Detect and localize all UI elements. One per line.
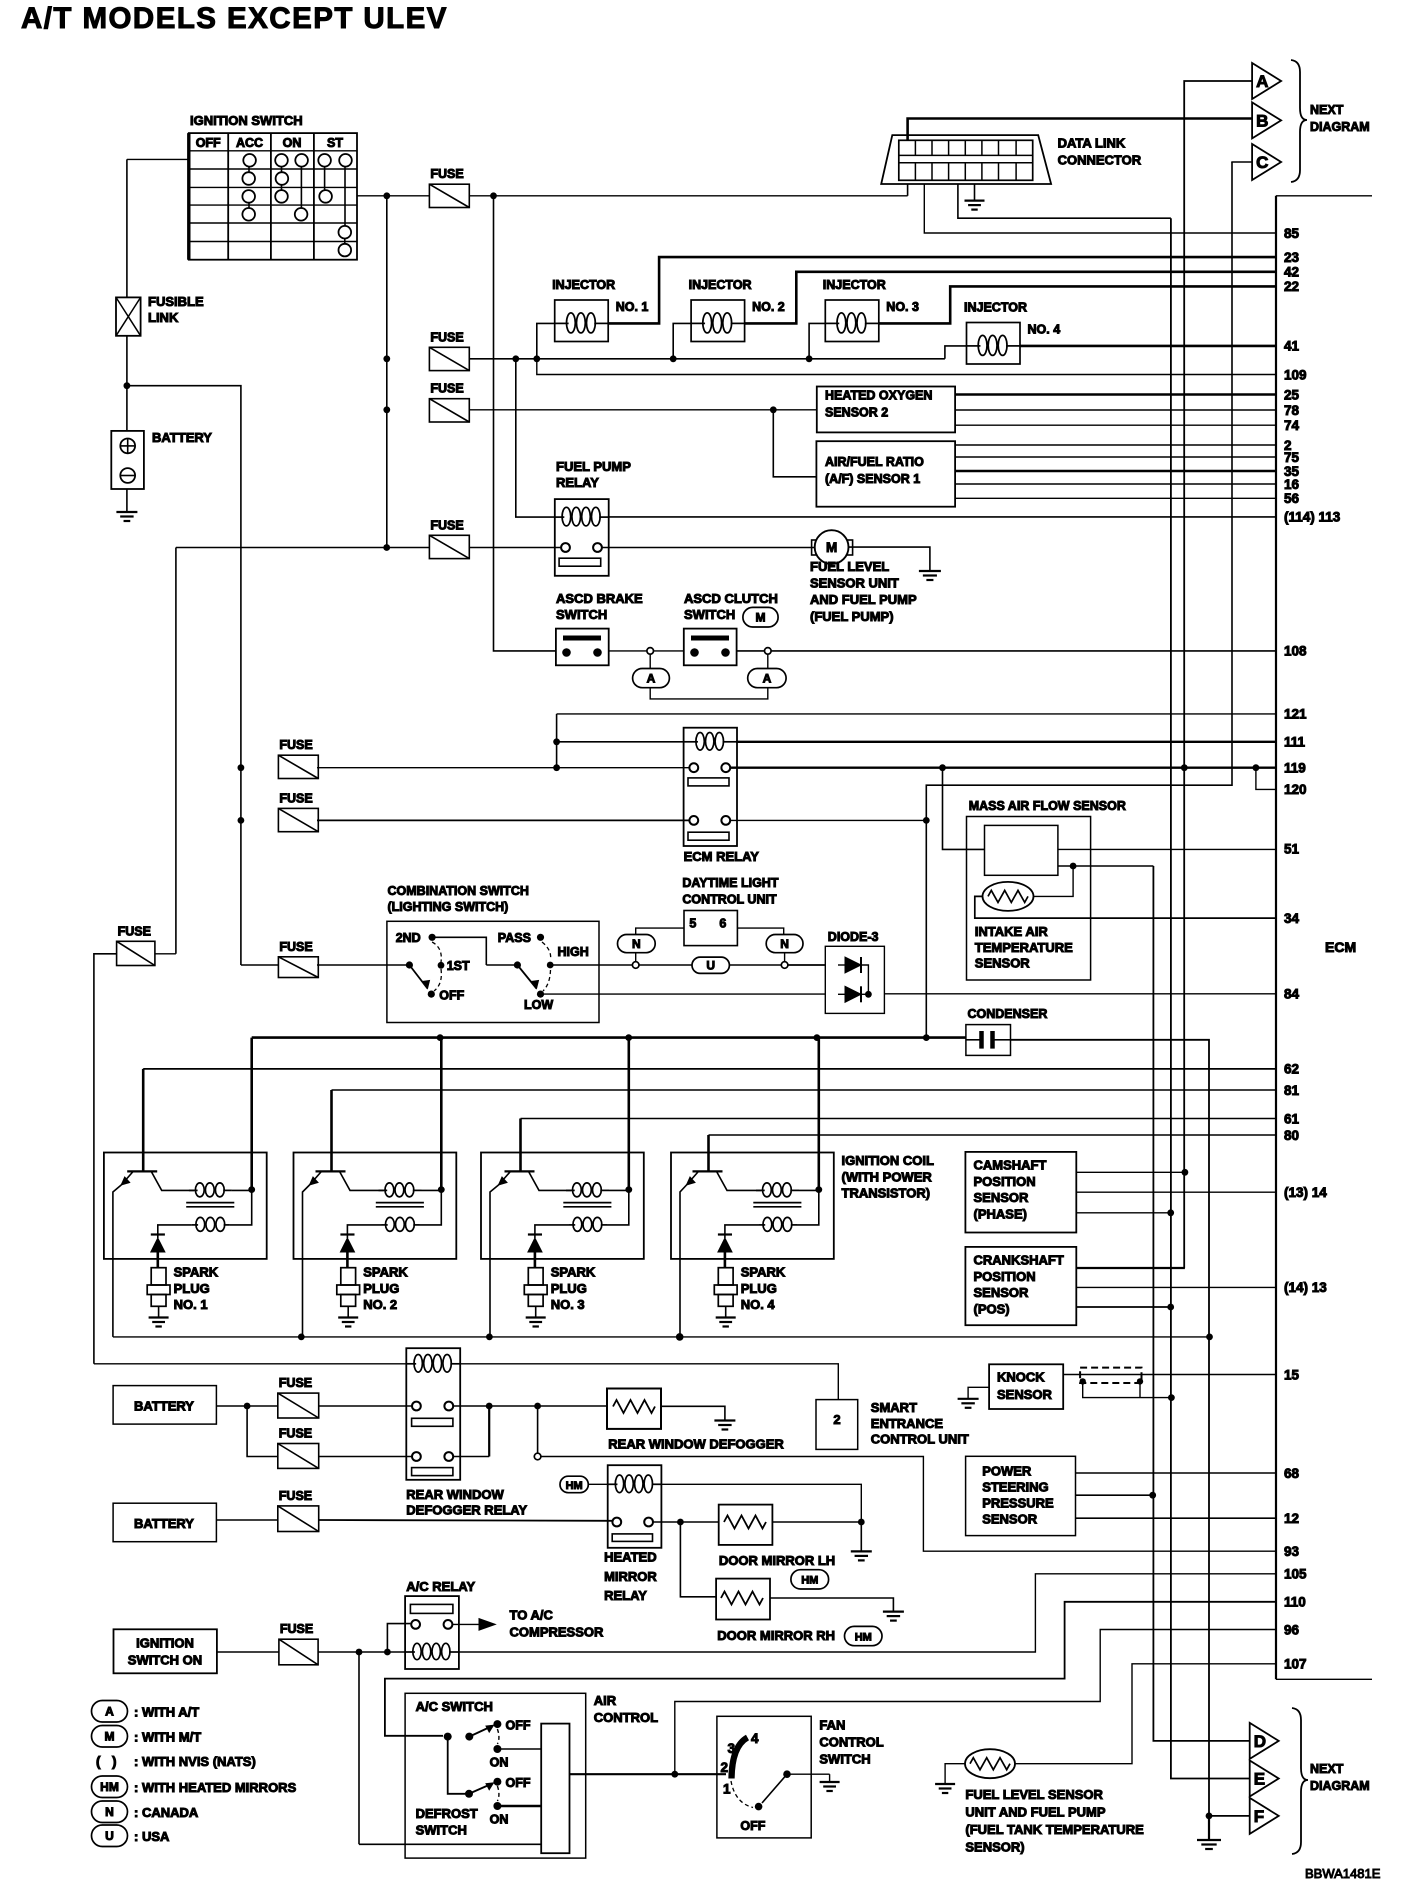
wire shield drain to E line: [1083, 1381, 1172, 1397]
diode coil NO. 3: [528, 1233, 542, 1235]
wire knock sensor ground: [968, 1387, 989, 1399]
wire B2 branch to FD2: [247, 1406, 278, 1457]
svg-text:NO. 1: NO. 1: [174, 1297, 208, 1312]
ignition switch table: [189, 133, 357, 260]
wire FD2 to defogger relay lower: [319, 1456, 412, 1458]
svg-text:85: 85: [1284, 226, 1300, 241]
data link connector DLC: [881, 135, 1051, 184]
wire HO2S pin 74: [955, 424, 1276, 426]
AC relay: [405, 1596, 459, 1669]
wire ECM relay lower contact out: [730, 819, 926, 821]
svg-text:34: 34: [1284, 911, 1300, 926]
svg-text:: WITH NVIS (NATS): : WITH NVIS (NATS): [134, 1754, 256, 1769]
injector NO. 1: [555, 300, 609, 342]
fuel tank temperature sensor: [965, 1749, 1015, 1778]
svg-text:(114) 113: (114) 113: [1284, 510, 1341, 525]
diode coil NO. 1: [151, 1233, 165, 1235]
svg-text:): ): [112, 1754, 117, 1769]
rear window defogger relay: [406, 1348, 460, 1480]
svg-text:E: E: [1254, 1770, 1265, 1789]
svg-text:SWITCH: SWITCH: [416, 1823, 467, 1838]
wire crankshaft pin2 to pin14-13: [1076, 1286, 1276, 1288]
svg-text:AND FUEL PUMP: AND FUEL PUMP: [810, 592, 917, 607]
svg-text:COMBINATION SWITCH: COMBINATION SWITCH: [388, 884, 529, 898]
svg-text:A: A: [647, 671, 656, 685]
svg-text:PASS: PASS: [498, 931, 531, 945]
svg-text:74: 74: [1284, 418, 1300, 433]
secondary winding NO. 4: [759, 1224, 765, 1226]
AC switch box: [405, 1693, 586, 1858]
wire diode-3 to pin84: [884, 993, 1276, 995]
svg-text:DATA LINK: DATA LINK: [1058, 136, 1126, 151]
transistor Q4: [693, 1170, 723, 1172]
AT oval A1: [649, 654, 651, 668]
wire injector NO. 2 left pin: [673, 323, 691, 358]
wire FL out to riser: [155, 953, 176, 955]
svg-text:KNOCK: KNOCK: [997, 1370, 1045, 1385]
ASCD clutch switch: [684, 629, 737, 666]
wire defogger to ground: [661, 1406, 725, 1420]
svg-text:M: M: [105, 1730, 115, 1744]
svg-text:75: 75: [1284, 450, 1300, 465]
triangle B: [1252, 102, 1281, 138]
ignition coil power bus: [252, 1036, 966, 1039]
svg-text:CONTROL UNIT: CONTROL UNIT: [682, 893, 777, 907]
wire AT ovals link: [650, 688, 768, 699]
svg-text:N: N: [105, 1805, 114, 1819]
svg-text:HM: HM: [855, 1631, 872, 1643]
svg-text:FUSE: FUSE: [279, 940, 312, 954]
svg-text:F: F: [1254, 1807, 1264, 1826]
svg-text:HM: HM: [566, 1480, 583, 1492]
transistor Q2: [316, 1170, 346, 1172]
svg-text:BATTERY: BATTERY: [134, 1516, 194, 1531]
wire fuel tank sensor to pin107: [1015, 1664, 1276, 1764]
core NO. 4: [753, 1202, 801, 1204]
wire AC relay coil to pin105: [459, 1574, 1276, 1652]
spark plug NO. 4: [718, 1268, 733, 1285]
injector NO. 2: [691, 300, 745, 342]
svg-text:(: (: [96, 1754, 101, 1769]
svg-text:78: 78: [1284, 403, 1300, 418]
svg-text:ON: ON: [490, 1756, 509, 1770]
wire coil power drop NO. 1: [250, 1038, 253, 1190]
svg-text:DAYTIME LIGHT: DAYTIME LIGHT: [682, 876, 778, 890]
svg-text:N: N: [632, 937, 641, 951]
svg-text:120: 120: [1284, 782, 1307, 797]
svg-text:SENSOR: SENSOR: [974, 1190, 1030, 1205]
svg-text:: WITH M/T: : WITH M/T: [134, 1730, 201, 1745]
svg-text:FAN: FAN: [819, 1718, 845, 1733]
wire to AF sensor: [773, 410, 816, 477]
wire F2 injector bus: [469, 358, 945, 360]
ignition coil block NO. 2: [294, 1153, 457, 1259]
svg-text:B: B: [1256, 111, 1268, 130]
svg-text:OFF: OFF: [506, 1719, 531, 1733]
wire IAT left to pin34: [975, 896, 1276, 918]
svg-text:2: 2: [721, 1760, 729, 1775]
smart entrance control unit: [460, 1364, 838, 1400]
wire injector NO. 3 left pin: [809, 323, 825, 358]
svg-text:93: 93: [1284, 1544, 1300, 1559]
wire FL feed: [94, 954, 117, 1364]
svg-text:PLUG: PLUG: [363, 1281, 399, 1296]
injector NO. 4: [967, 323, 1021, 365]
fan switch arc: [732, 1738, 748, 1779]
svg-text:SMART: SMART: [871, 1400, 917, 1415]
wire MAF second pin to D line: [1058, 865, 1154, 867]
junction battery branch: [124, 382, 131, 389]
svg-text:REAR WINDOW: REAR WINDOW: [406, 1487, 504, 1502]
wire pin row to coil NO. 1 base: [143, 1068, 1276, 1070]
svg-text:IGNITION COIL: IGNITION COIL: [842, 1153, 935, 1168]
wire coil power drop NO. 2: [440, 1038, 443, 1190]
svg-text:RELAY: RELAY: [604, 1588, 647, 1603]
svg-text:FUEL PUMP: FUEL PUMP: [556, 459, 631, 474]
AT oval A2: [767, 654, 769, 668]
ignition coil ground bus: [113, 1336, 1210, 1338]
svg-text:A: A: [1256, 72, 1268, 91]
battery B2: [113, 1386, 216, 1425]
wire coil NO. 1 to spark plug: [157, 1252, 160, 1268]
wire PSPS pin 68: [1076, 1472, 1277, 1474]
svg-text:FUSE: FUSE: [280, 1622, 313, 1636]
svg-text:TRANSISTOR): TRANSISTOR): [842, 1186, 931, 1201]
wire to diode-3: [788, 964, 825, 966]
E line vertical: [1171, 218, 1250, 1778]
triangle D: [1250, 1723, 1279, 1759]
svg-text:ASCD BRAKE: ASCD BRAKE: [556, 591, 643, 606]
combination switch box: [387, 921, 599, 1022]
junction injector bus 1: [533, 355, 540, 362]
svg-text:U: U: [706, 959, 715, 973]
door mirror LH: [719, 1505, 773, 1545]
vertical bus from F1 junction to ASCD: [494, 196, 556, 651]
svg-text:22: 22: [1284, 279, 1299, 294]
svg-text:FUSE: FUSE: [118, 924, 151, 938]
wire pin111 through ECM relay coil: [557, 741, 685, 743]
svg-text:80: 80: [1284, 1128, 1299, 1143]
wire fuel tank sensor ground: [945, 1764, 965, 1784]
svg-text:SPARK: SPARK: [174, 1265, 219, 1280]
D line vertical: [1153, 866, 1249, 1741]
wire heated mirror relay out: [653, 1521, 719, 1523]
svg-text:3: 3: [728, 1741, 736, 1756]
heated mirror relay: [608, 1465, 662, 1548]
svg-text:ENTRANCE: ENTRANCE: [871, 1416, 944, 1431]
wire injector NO. 3 output: [879, 286, 1276, 323]
wire DLC pin to pin85: [924, 184, 1276, 233]
svg-text:MIRROR: MIRROR: [604, 1569, 657, 1584]
wire diode join: [861, 965, 868, 994]
HM oval feed: [560, 1476, 588, 1493]
svg-text:DIAGRAM: DIAGRAM: [1310, 1779, 1370, 1793]
wire HO2S pin 25: [955, 393, 1276, 395]
wire pin row to coil NO. 3 base: [521, 1118, 1277, 1120]
wire coil power drop NO. 3: [627, 1038, 630, 1190]
svg-text:M: M: [826, 540, 837, 555]
wire emitter NO. 4: [680, 1185, 687, 1337]
ignition switch contacts column ST: [324, 166, 326, 190]
primary winding NO. 3: [566, 1189, 575, 1191]
svg-text:62: 62: [1284, 1062, 1299, 1077]
with MT oval: [743, 607, 778, 627]
wire brake to clutch switch: [609, 650, 684, 652]
primary winding NO. 1: [189, 1189, 198, 1191]
svg-text:(PHASE): (PHASE): [974, 1206, 1027, 1221]
svg-text:INJECTOR: INJECTOR: [689, 278, 752, 292]
svg-text:OFF: OFF: [196, 136, 221, 150]
junction 121-111 riser: [553, 764, 560, 771]
svg-text:RELAY: RELAY: [556, 475, 599, 490]
svg-text:CONDENSER: CONDENSER: [968, 1007, 1048, 1021]
wire DLC to triangle B: [908, 119, 1253, 141]
wire coil NO. 4 to spark plug: [724, 1252, 727, 1268]
fusible link FL: [116, 297, 141, 335]
wire AC relay to compressor arrow: [452, 1623, 479, 1625]
diode D2: [845, 986, 861, 1002]
svg-text:ACC: ACC: [236, 136, 263, 150]
svg-text:SPARK: SPARK: [363, 1265, 408, 1280]
wire clutch switch to pin108: [737, 650, 1276, 652]
svg-text:121: 121: [1284, 707, 1307, 722]
svg-text:DIAGRAM: DIAGRAM: [1310, 120, 1370, 134]
svg-text:BBWA1481E: BBWA1481E: [1305, 1866, 1381, 1881]
ignition coil block NO. 3: [481, 1153, 644, 1259]
svg-text:INJECTOR: INJECTOR: [823, 278, 886, 292]
wire emitter NO. 1: [113, 1185, 121, 1337]
svg-text:CAMSHAFT: CAMSHAFT: [974, 1158, 1047, 1173]
svg-text:BATTERY: BATTERY: [134, 1399, 194, 1414]
wire to triangle A: [1184, 81, 1252, 1268]
wire AF pin 35: [955, 470, 1276, 472]
svg-text:81: 81: [1284, 1083, 1300, 1098]
svg-text:NO. 4: NO. 4: [741, 1297, 776, 1312]
primary winding NO. 4: [756, 1189, 765, 1191]
ignition coil block NO. 4: [671, 1153, 834, 1259]
wire smart entrance feed: [94, 1363, 406, 1365]
svg-text:HM: HM: [801, 1575, 818, 1587]
wire emitter NO. 3: [490, 1185, 499, 1337]
wire fan line to pin96: [675, 1630, 1276, 1775]
svg-text:FUSE: FUSE: [279, 738, 312, 752]
svg-text:A/T MODELS EXCEPT ULEV: A/T MODELS EXCEPT ULEV: [21, 2, 448, 35]
svg-text:PRESSURE: PRESSURE: [982, 1496, 1054, 1511]
svg-text:FUSE: FUSE: [279, 1489, 312, 1503]
svg-text:SPARK: SPARK: [741, 1265, 786, 1280]
svg-text:NO. 2: NO. 2: [363, 1297, 397, 1312]
wire HO2S pin 78: [955, 409, 1276, 411]
brace next diagram top: [1291, 60, 1307, 182]
wire injector NO. 4 output: [1020, 345, 1276, 348]
intake air temperature sensor: [983, 882, 1034, 911]
svg-text:ASCD CLUTCH: ASCD CLUTCH: [684, 591, 778, 606]
wire air control bottom feed: [359, 1843, 541, 1845]
svg-text:PLUG: PLUG: [741, 1281, 777, 1296]
wire defogger relay out: [453, 1405, 607, 1407]
svg-text:N: N: [780, 937, 789, 951]
svg-text:: WITH HEATED MIRRORS: : WITH HEATED MIRRORS: [134, 1780, 297, 1795]
svg-text:C: C: [1256, 153, 1268, 172]
svg-text:SENSOR: SENSOR: [974, 1285, 1030, 1300]
svg-text:SENSOR UNIT: SENSOR UNIT: [810, 576, 899, 591]
wire DLCU pin6 to N2: [737, 928, 783, 934]
svg-text:SENSOR: SENSOR: [997, 1387, 1053, 1402]
ignition coil block NO. 1: [104, 1153, 267, 1259]
transistor Q3: [505, 1170, 535, 1172]
svg-text:12: 12: [1284, 1511, 1299, 1526]
svg-text:1ST: 1ST: [447, 959, 470, 973]
svg-text:FUSIBLE: FUSIBLE: [148, 294, 204, 309]
svg-text:FUSE: FUSE: [279, 1376, 312, 1390]
svg-text:: CANADA: : CANADA: [134, 1805, 199, 1820]
wire knock sensor to pin15: [1063, 1374, 1276, 1376]
triangle C: [1252, 144, 1281, 180]
core NO. 3: [563, 1202, 611, 1204]
wire PSPS middle pin to D line: [1076, 1494, 1153, 1496]
wire air control output to fan switch: [570, 1773, 727, 1775]
knock sensor shield: [1080, 1368, 1141, 1383]
wire triangle C vertical: [926, 162, 1232, 1038]
wire AF pin 75: [955, 456, 1276, 458]
svg-text:DOOR MIRROR RH: DOOR MIRROR RH: [717, 1628, 835, 1643]
svg-text:51: 51: [1284, 842, 1300, 857]
junction F1 out: [490, 192, 497, 199]
air fuel ratio sensor 1: [816, 441, 955, 507]
ASCD brake switch: [556, 629, 609, 666]
ground DLC: [974, 184, 976, 201]
svg-text:IGNITION SWITCH: IGNITION SWITCH: [190, 113, 303, 128]
ignition switch contacts column ON: [281, 166, 283, 190]
wire fan switch to ground: [787, 1773, 830, 1775]
svg-text:HIGH: HIGH: [558, 945, 589, 959]
svg-text:SENSOR: SENSOR: [975, 956, 1031, 971]
wire FA to ECM relay contact: [317, 767, 689, 769]
canada oval N2: [766, 935, 803, 953]
svg-text:CONNECTOR: CONNECTOR: [1058, 153, 1142, 168]
core NO. 1: [186, 1202, 234, 1204]
diode D1: [845, 957, 861, 973]
wire ignition sw to fuse F1: [357, 195, 429, 197]
svg-text:ECM: ECM: [1325, 939, 1356, 955]
wire branch to fuse bus: [127, 386, 241, 768]
wire pin row to coil NO. 4 base: [709, 1134, 1277, 1136]
svg-text:1: 1: [723, 1782, 731, 1797]
wire DLC pin to E line: [958, 184, 1171, 218]
svg-text:NO. 2: NO. 2: [752, 300, 785, 314]
svg-text:119: 119: [1284, 761, 1306, 776]
wire camshaft pin1 to A line: [1076, 1171, 1185, 1173]
wire camshaft pin2 to pin13-14: [1076, 1191, 1276, 1193]
wire coil NO. 2 to spark plug: [346, 1252, 349, 1268]
svg-text:LOW: LOW: [524, 998, 553, 1012]
svg-text:SPARK: SPARK: [551, 1265, 596, 1280]
secondary winding NO. 1: [192, 1224, 198, 1226]
wire bus to FC: [240, 768, 242, 965]
junction injector bus 2: [670, 355, 677, 362]
svg-text:FUSE: FUSE: [279, 1427, 312, 1441]
svg-text:CONTROL: CONTROL: [819, 1735, 883, 1750]
wire pin121: [557, 713, 1276, 715]
wire emitter NO. 2: [303, 1185, 310, 1337]
svg-text:(LIGHTING SWITCH): (LIGHTING SWITCH): [388, 900, 509, 914]
svg-text:COMPRESSOR: COMPRESSOR: [510, 1625, 605, 1640]
mass air flow sensor box: [967, 817, 1091, 981]
svg-text:2ND: 2ND: [396, 931, 421, 945]
svg-text:NO. 1: NO. 1: [616, 300, 649, 314]
canada oval N1: [618, 935, 656, 953]
wire PSPS pin 12: [1076, 1517, 1277, 1519]
wire coil power drop NO. 4: [817, 1038, 820, 1190]
wire ON2 to air control: [497, 1805, 541, 1807]
wire coil NO. 3 to spark plug: [534, 1252, 537, 1268]
wire branch to AC relay contact: [387, 1624, 410, 1652]
camshaft position sensor: [965, 1152, 1076, 1233]
wire relay contact to fuel pump: [602, 547, 815, 549]
fuse bus vertical: [386, 196, 388, 548]
power steering pressure sensor: [966, 1456, 1076, 1535]
wire F3 to heated oxygen sensor: [469, 409, 817, 411]
svg-text:(FUEL TANK TEMPERATURE: (FUEL TANK TEMPERATURE: [965, 1822, 1144, 1837]
svg-text:(FUEL PUMP): (FUEL PUMP): [810, 609, 894, 624]
legend: [92, 1701, 128, 1723]
svg-text:84: 84: [1284, 986, 1300, 1001]
wire open circle to pin93: [541, 1457, 1276, 1552]
wire to triangle C: [1231, 161, 1252, 163]
svg-text:FUSE: FUSE: [430, 330, 463, 344]
wire injector NO. 4 left pin: [945, 346, 967, 359]
AC switch pole 2: [448, 1737, 469, 1794]
wire fusible link to battery: [126, 336, 128, 431]
wire ON1 to air control: [497, 1748, 541, 1750]
spark plug NO. 1: [151, 1268, 166, 1285]
wire to open circle: [537, 1406, 539, 1453]
wire DLCU pin5 to N1: [636, 928, 684, 934]
AC switch pole 1: [444, 1733, 452, 1741]
svg-text:110: 110: [1284, 1595, 1306, 1610]
svg-text:TO A/C: TO A/C: [510, 1608, 554, 1623]
svg-text:(14) 13: (14) 13: [1284, 1280, 1327, 1295]
wire FD1 to defogger relay: [319, 1405, 412, 1407]
svg-text:PLUG: PLUG: [551, 1281, 587, 1296]
wire ECM relay to pin119: [730, 767, 1276, 769]
wire FC to combination switch: [317, 964, 409, 966]
diode-3 box: [825, 946, 884, 1013]
svg-text:68: 68: [1284, 1466, 1300, 1481]
svg-text:15: 15: [1284, 1367, 1300, 1382]
svg-text:ON: ON: [283, 136, 302, 150]
combination switch pole 1: [406, 961, 413, 968]
MAF inner box: [985, 825, 1058, 875]
svg-text:42: 42: [1284, 265, 1299, 280]
triangle F: [1250, 1798, 1279, 1834]
svg-text:25: 25: [1284, 387, 1300, 402]
svg-text:FUSE: FUSE: [430, 167, 463, 181]
svg-text:A/C SWITCH: A/C SWITCH: [416, 1699, 493, 1714]
wire crankshaft pin1 to A line: [1076, 1267, 1185, 1269]
wire MAF to pin51: [1058, 848, 1276, 850]
svg-text:23: 23: [1284, 250, 1300, 265]
svg-text:POSITION: POSITION: [974, 1174, 1036, 1189]
svg-text:CONTROL: CONTROL: [594, 1710, 658, 1725]
air control inner box: [541, 1724, 569, 1854]
svg-text:SWITCH: SWITCH: [684, 607, 735, 622]
svg-text:(13) 14: (13) 14: [1284, 1185, 1327, 1200]
secondary winding NO. 2: [382, 1224, 388, 1226]
svg-text:56: 56: [1284, 491, 1300, 506]
svg-text:SWITCH: SWITCH: [819, 1752, 870, 1767]
wire branch to air control: [358, 1652, 360, 1844]
